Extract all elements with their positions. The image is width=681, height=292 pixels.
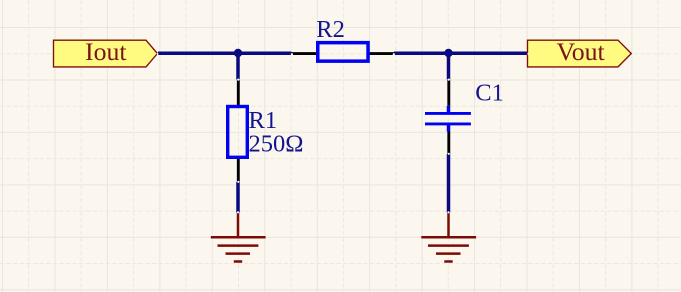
wire: junction B down to C1 top pin <box>447 53 451 79</box>
svg-text:Iout: Iout <box>85 37 127 66</box>
port Iout <box>54 40 158 67</box>
resistor R2 pin 2 <box>369 52 394 55</box>
pin hotspot dots <box>157 53 529 213</box>
capacitor C1 pin 2 <box>447 132 450 155</box>
wire: R2 right pin to Vout <box>394 52 528 56</box>
svg-text:R2: R2 <box>316 16 345 43</box>
capacitor C1 bottom plate <box>425 122 471 125</box>
capacitor C1 top lead stub <box>447 106 451 114</box>
svg-text:250Ω: 250Ω <box>249 131 304 158</box>
resistor R1 body <box>228 107 248 158</box>
resistor R1 pin 1 <box>237 80 240 106</box>
capacitor C1 top plate <box>425 112 471 115</box>
resistor R1 pin 2 <box>237 158 240 182</box>
wire: main horizontal net, Iout to R2 left pin <box>158 52 292 56</box>
capacitor C1 pin 1 <box>447 80 450 106</box>
svg-text:Vout: Vout <box>556 37 605 66</box>
capacitor C1 bottom lead stub <box>447 124 451 132</box>
wire: R1 bottom pin to left ground <box>236 182 240 213</box>
resistor R2 body <box>318 43 368 62</box>
resistor R2 pin 1 <box>292 52 318 55</box>
wire: junction A down to R1 top pin <box>236 53 240 79</box>
ground symbol GND left <box>211 213 266 262</box>
ground symbol GND right <box>421 213 476 262</box>
junction node B <box>444 49 452 57</box>
svg-text:C1: C1 <box>475 79 504 106</box>
junction node A <box>234 49 242 57</box>
wire: C1 bottom pin to right ground <box>447 154 451 213</box>
port Vout <box>528 40 632 67</box>
